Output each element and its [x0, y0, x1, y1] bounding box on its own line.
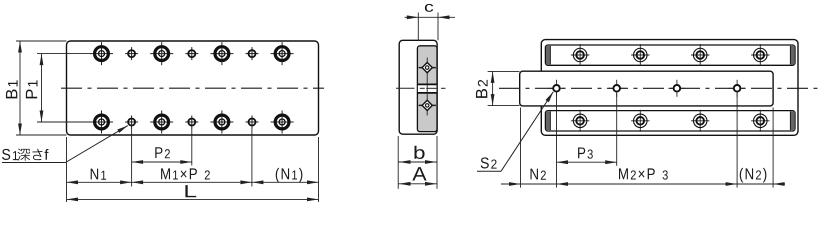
plate outline (left view)	[67, 41, 319, 135]
counterbore hole row top (left view)	[90, 42, 113, 65]
table body section outline (middle view)	[399, 40, 437, 134]
label M1xP2	[161, 168, 210, 179]
centerline (left view)	[61, 87, 324, 89]
label B2	[476, 80, 488, 98]
dimension c	[405, 15, 456, 19]
label (N2)	[740, 168, 767, 183]
label A	[412, 167, 426, 180]
dimension B1	[18, 41, 22, 135]
label M2xP3	[619, 168, 668, 179]
label P2	[155, 147, 170, 158]
dimension P3	[557, 160, 617, 164]
centerline (right view)	[499, 87, 818, 89]
label N2	[530, 169, 545, 180]
table outline (right view)	[541, 40, 798, 136]
screw upper (middle view)	[419, 62, 436, 74]
top rail holes (right view)	[571, 44, 589, 66]
extension lines B2	[488, 71, 520, 105]
bottom rail holes (right view)	[571, 110, 589, 132]
rail section gray (middle view)	[417, 46, 437, 132]
screw lower (middle view)	[419, 99, 436, 111]
dimension row N1 M1xP2 (N1)	[67, 180, 319, 184]
label P3	[578, 148, 593, 159]
extension lines P1	[37, 54, 90, 122]
dimension L	[67, 198, 319, 202]
kanji sa	[32, 149, 42, 160]
label b	[414, 146, 424, 159]
top rail (right view)	[545, 45, 795, 65]
dimension row N2 M2xP3 (N2)	[501, 182, 785, 186]
gap band (middle view)	[417, 84, 437, 93]
dimension A	[398, 182, 437, 186]
kanji fuka	[18, 148, 31, 160]
extension lines P2	[132, 128, 252, 187]
extension lines c	[418, 13, 438, 41]
label S2	[481, 157, 497, 168]
extension lines bottom dims (right view)	[521, 94, 774, 188]
label P1	[26, 80, 38, 98]
extension lines b A	[398, 136, 437, 189]
label N1	[91, 169, 106, 180]
centerline (middle view)	[396, 87, 446, 89]
label (N1)	[276, 168, 303, 183]
tapped hole row bottom (left view)	[125, 116, 138, 129]
extension lines B1	[16, 41, 67, 135]
label c	[425, 4, 433, 12]
screw vertical centerline (middle view)	[426, 58, 428, 116]
bottom rail (right view)	[545, 111, 795, 131]
leader S1	[2, 126, 128, 163]
extension lines N1 and L	[67, 137, 319, 202]
label B1	[6, 80, 18, 98]
dimension P2	[132, 160, 192, 164]
dimension b	[398, 160, 437, 164]
tapped hole row top (left view)	[125, 47, 138, 60]
dimension P1	[40, 54, 44, 122]
leader S2	[477, 92, 553, 171]
counterbore hole row bottom (left view)	[90, 111, 113, 134]
base plate holes (right view)	[548, 80, 565, 97]
label f	[45, 149, 49, 160]
base plate (right view)	[520, 71, 773, 106]
label L	[185, 185, 196, 197]
label S1	[2, 149, 18, 160]
dimension B2	[491, 71, 495, 105]
